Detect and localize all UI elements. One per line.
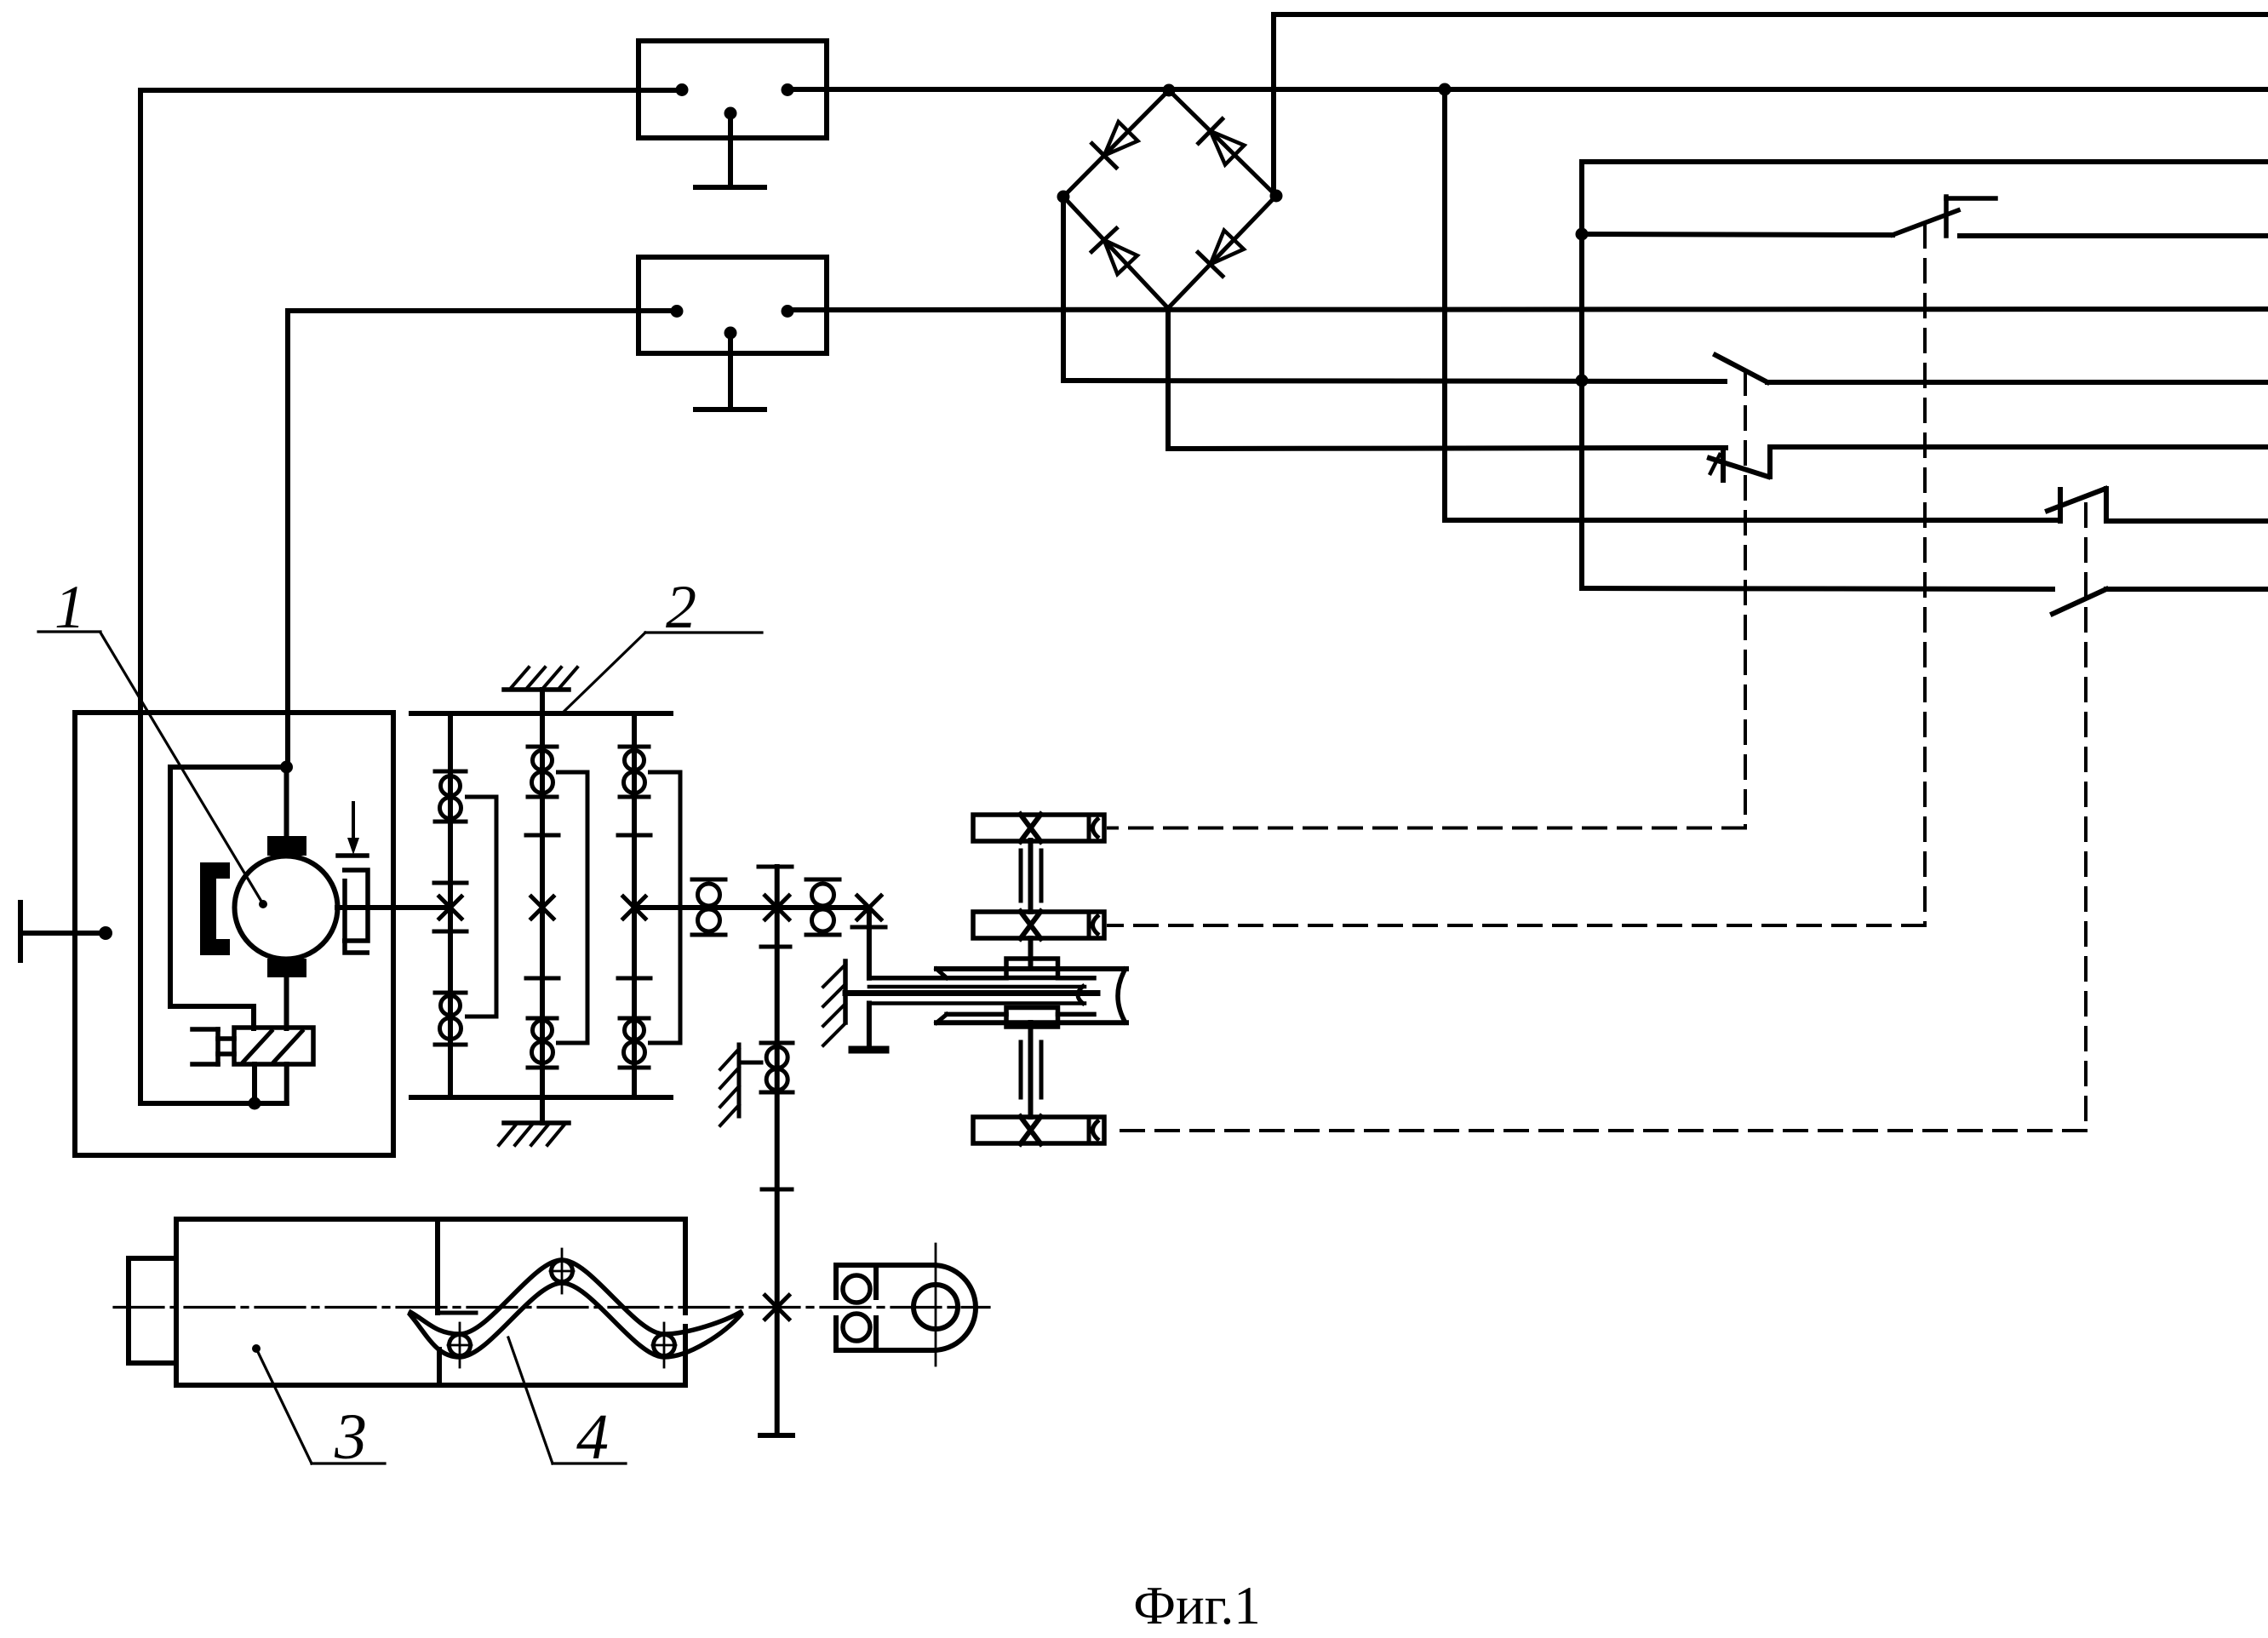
nut divider upper <box>873 1265 879 1297</box>
column 2 upper bearing <box>528 745 557 749</box>
shaft bearing A <box>692 878 725 882</box>
wire y526 right part after contact SQ3 <box>1770 444 2268 450</box>
nut divider lower <box>873 1318 879 1350</box>
column 3 carrier bracket <box>648 772 680 1043</box>
resistor left bracket bottom arm <box>192 1062 218 1067</box>
label 3 underline <box>312 1462 385 1464</box>
column 3 gear tick upper <box>618 833 650 838</box>
column 3 upper bearing <box>620 745 649 749</box>
axle tube bottom line <box>869 1001 1085 1005</box>
brake bar <box>338 853 367 858</box>
contact SQ4 left stub <box>2058 490 2063 521</box>
axle tube top line <box>869 985 1085 989</box>
diode VD3 bottom-left edge (arrow to left corner) <box>1104 240 1137 274</box>
carrier link vertical x1021 lower <box>867 1004 872 1048</box>
wire bottom return to riser 1 <box>140 1101 287 1106</box>
label 1 leader end dot <box>259 900 267 908</box>
bevel gear cross at x913 <box>765 896 789 919</box>
node dot on vertical B at y447 <box>1576 375 1589 387</box>
axis dash-dot centerline <box>114 1306 989 1309</box>
column 3 lower bearing <box>620 1017 649 1021</box>
axle wing bottom upper edge left <box>947 1012 1006 1017</box>
label 4 leader line <box>508 1337 553 1463</box>
wire y526 from bridge bottom leg to contact SQ3 <box>1169 448 1726 449</box>
upper block bottom edge left stub <box>439 1311 476 1315</box>
node dot on vertical B at y275 <box>1576 228 1589 241</box>
wheel 3 right cap arc <box>1093 1120 1100 1141</box>
relay K2 ground stem <box>728 333 733 409</box>
axle shaft break inner arc <box>1078 985 1085 1005</box>
shaft bearing B <box>806 878 839 882</box>
label 1 leader line <box>100 633 263 904</box>
column 2 gear tick lower <box>526 976 558 981</box>
wire y691 from vertical B corner to contact SQ5 <box>1582 588 2053 589</box>
bridge left corner node dot <box>1057 191 1070 203</box>
axle wheel1-wheel2 coupling bars <box>1019 850 1023 901</box>
relay K1 right contact dot <box>782 83 794 96</box>
resistor bracket tongue lower <box>218 1051 234 1057</box>
vertical output shaft x913 <box>775 867 780 1307</box>
carrier link ground bar <box>852 1046 885 1054</box>
gearbox top ground stem <box>540 690 545 713</box>
wave band 4 lower line <box>409 1283 742 1357</box>
nut ball upper <box>843 1275 870 1303</box>
relay K1 center terminal dot <box>724 107 737 120</box>
wheel 2 right cap bar <box>1087 914 1091 936</box>
wire y447 from bridge left corner leg to contact SQ2 <box>1063 381 1725 381</box>
contact SQ4 blade <box>2047 489 2105 511</box>
column 1 carrier bracket <box>465 797 496 1017</box>
node dot wire2 to motor top <box>280 761 293 774</box>
wire resistor bottom stub 2 <box>284 1064 289 1103</box>
wheel 1 cross <box>1021 815 1041 842</box>
axle top bearing block <box>1006 959 1058 978</box>
axle wheel1-wheel2 center <box>1028 840 1034 912</box>
resistor left bracket vertical <box>215 1029 220 1064</box>
contact SQ1 blade (top right, with hook) <box>1893 210 1958 235</box>
dashed link horizontal to wheel 2 <box>1108 924 1925 927</box>
gearbox bottom ground stem <box>540 1097 545 1123</box>
resistor hatch stroke 2 <box>274 1031 302 1062</box>
screw shaft lower part <box>775 1307 780 1435</box>
axle differential-wheel3 center <box>1028 1022 1034 1117</box>
axle wing bottom upper edge right <box>1058 1012 1095 1017</box>
cylinder 3 outer box bottom <box>176 1383 685 1388</box>
wheel 2 right cap arc <box>1093 915 1100 936</box>
cylinder 3 left edge <box>174 1219 179 1385</box>
node dot bottom wire <box>249 1097 261 1110</box>
planet column 2 shaft <box>540 713 545 1097</box>
wave band 4 upper line <box>409 1260 742 1334</box>
cylinder divider upper <box>435 1219 440 1313</box>
diode VD2 top-right edge (arrow to top corner) <box>1211 131 1245 164</box>
contact SQ3 blade <box>1710 458 1768 477</box>
wheel 1 right cap bar <box>1087 817 1091 839</box>
gearbox 2 bottom rail <box>411 1095 671 1100</box>
gearbox top ground bar <box>504 687 569 692</box>
contact SQ4 right step <box>2104 489 2109 521</box>
axle shaft break outer arc <box>1118 967 1126 1024</box>
relay K2 ground bar <box>696 407 765 412</box>
wire y611 from vertical A corner to contact SQ4 <box>1445 518 2060 523</box>
column 2 sun gear cross <box>531 896 553 919</box>
axle differential-wheel3 coupling bars <box>1019 1042 1023 1097</box>
column 2 lower bearing <box>528 1017 557 1021</box>
wire y447 right part after contact SQ2 <box>1767 380 2268 385</box>
contact SQ1 right fixed wire <box>1960 233 2268 238</box>
cylinder divider lower <box>437 1349 442 1385</box>
column 2 gear tick upper <box>526 833 558 838</box>
column 1 lower bearing <box>435 991 466 995</box>
axle wheel2-differential <box>1028 938 1034 965</box>
wheel 1 right cap arc <box>1093 818 1100 839</box>
wheel 3 right cap bar <box>1087 1120 1091 1141</box>
resistor hatch stroke 1 <box>243 1031 272 1062</box>
input terminal T-bar <box>18 902 23 960</box>
carrier link vertical x1021 upper <box>867 908 872 978</box>
planet column 1 shaft <box>448 713 453 1097</box>
column 1 gear tick upper <box>434 881 467 885</box>
wheel 3 body <box>973 1117 1104 1143</box>
wire y691 right part after contact SQ5 <box>2106 587 2268 592</box>
motor shaft to gearbox <box>337 905 450 910</box>
motor bottom brush <box>267 959 306 977</box>
label 1 underline <box>38 630 100 633</box>
svg-text:3: 3 <box>334 1401 367 1473</box>
diode VD4 bottom-right edge (arrow to bottom corner) <box>1211 230 1244 264</box>
wave roller 1 <box>450 1335 471 1356</box>
carrier link tick <box>852 925 885 930</box>
planet column 3 shaft <box>632 713 637 1097</box>
bridge right corner node dot <box>1270 190 1283 203</box>
contact SQ1 hook vertical <box>1944 197 1949 236</box>
wave roller 2 (crest) <box>552 1261 573 1282</box>
dashed link horizontal to wheel 3 <box>1108 1129 2086 1132</box>
brake release arrow <box>352 803 355 846</box>
nut housing bottom edge <box>836 1348 933 1353</box>
brake bracket right <box>342 870 368 941</box>
column 1 upper bearing <box>435 770 466 774</box>
motor armature circle M <box>235 856 338 959</box>
svg-text:1: 1 <box>54 573 85 641</box>
node junction dot on y105 at x1697 <box>1439 83 1452 96</box>
wave roller 3 <box>654 1335 675 1356</box>
bearing wall arm <box>739 1061 761 1065</box>
wire y190 from corner to right edge <box>1582 159 2268 164</box>
bearing wall support x913 <box>737 1045 742 1116</box>
axle wing bottom-left slant <box>936 1014 947 1022</box>
wheel 3 cross <box>1021 1117 1041 1144</box>
gearbox bottom ground bar <box>504 1120 569 1125</box>
contact SQ5 blade <box>2053 589 2106 614</box>
axle wing top-left slant <box>936 969 947 978</box>
wire loop vertical x200 <box>168 767 173 1006</box>
wire loop stub down to resistor <box>251 1006 256 1028</box>
wire left riser 2 x338 <box>285 311 290 767</box>
motor stator bracket <box>200 862 230 955</box>
resistor R (hatched box) <box>234 1028 313 1064</box>
wire from left riser to relay K1 <box>140 88 682 93</box>
wire vertical from top bus to bridge right corner <box>1271 14 1276 196</box>
contact SQ3 left stub <box>1721 448 1726 480</box>
wire resistor bottom stub 1 <box>252 1064 257 1103</box>
axle wing bottom edge <box>936 1020 1126 1025</box>
axle bottom bearing block <box>1006 1008 1058 1028</box>
relay K2 left contact dot <box>671 305 684 318</box>
cylinder 3 right edge lower <box>683 1326 688 1385</box>
gearbox bottom ground hatches <box>499 1125 516 1145</box>
label 2 leader line <box>562 633 645 713</box>
bridge top corner node dot <box>1163 84 1176 97</box>
column 3 sun gear cross <box>623 896 645 919</box>
wire left riser 1 x165 <box>138 90 143 1103</box>
wire y363 bus from relay K2 to right edge <box>787 309 2268 310</box>
wire loop bottom horizontal <box>170 1004 254 1009</box>
wire y275 contact SQ1 feed <box>1582 234 1893 235</box>
carrier gear cross at x1021 <box>857 896 881 919</box>
main shaft line <box>634 905 869 910</box>
label 3 leader dot <box>252 1344 261 1353</box>
relay K2 center terminal dot <box>724 327 737 340</box>
axle wing top lower edge left <box>869 976 1006 981</box>
input terminal end dot <box>99 926 112 940</box>
axle support wall <box>843 961 848 1022</box>
motor unit 1 outer box <box>75 713 393 1155</box>
contact SQ3 tick <box>1710 455 1720 473</box>
wheel 2 cross <box>1021 912 1041 939</box>
wire bus y105 from relay K1 to right edge <box>787 87 2268 92</box>
shaft x913 bearing <box>761 1041 793 1045</box>
shaft x913 top tick <box>759 865 792 869</box>
wire from bridge left corner down to y447 <box>1061 197 1066 381</box>
screw shaft bottom bar <box>760 1433 793 1438</box>
relay K2 box <box>639 257 827 353</box>
label 4 underline <box>553 1462 626 1464</box>
axle wing top edge <box>936 966 1126 971</box>
nut D-arc <box>933 1265 976 1350</box>
gearbox top ground hatches <box>512 667 529 687</box>
wire bottom brush to resistor <box>284 977 289 1028</box>
column 2 carrier bracket <box>556 772 587 1043</box>
nut ball lower <box>843 1314 870 1341</box>
wire from left riser 2 to relay K2 <box>288 308 677 313</box>
relay K1 ground stem <box>728 113 733 187</box>
contact SQ2 blade <box>1715 355 1767 382</box>
column 3 gear tick lower <box>618 976 650 981</box>
dashed link from SQ4/SQ5 down to wheel 3 <box>2084 504 2088 1131</box>
svg-text:2: 2 <box>666 573 696 641</box>
label 2 underline <box>645 631 762 633</box>
resistor left bracket top arm <box>192 1027 218 1032</box>
wheel 2 body <box>973 912 1104 938</box>
label 3 leader line <box>256 1349 312 1463</box>
wheel 1 body <box>973 815 1104 841</box>
nut housing left edge upper <box>833 1265 839 1297</box>
cylinder 3 right edge upper <box>683 1219 688 1313</box>
relay K1 left contact dot <box>676 83 689 96</box>
cylinder 3 outer box top <box>176 1217 685 1222</box>
input terminal wire <box>20 931 106 936</box>
brake bracket left <box>345 879 369 953</box>
relay K1 ground bar <box>696 185 765 190</box>
column 1 sun gear cross <box>439 896 461 919</box>
dashed link horizontal to wheel 1 <box>1108 827 1745 830</box>
nut eye vertical crosshair <box>935 1244 937 1366</box>
axle center shaft line <box>845 990 1097 996</box>
wire loop left: node to x200 <box>170 765 287 770</box>
nut housing top edge <box>836 1263 933 1268</box>
wire vertical B x1858 from y190 corner down to y691 <box>1579 162 1584 588</box>
axle wing top lower edge right <box>1058 976 1095 981</box>
nut eye circle <box>913 1285 958 1329</box>
relay K2 right contact dot <box>782 305 794 318</box>
resistor bracket tongue upper <box>218 1036 234 1041</box>
dashed link from SQ2/SQ3 down to wheel 1 <box>1744 372 1747 828</box>
dashed link from SQ1 down to wheel 2 <box>1923 225 1927 925</box>
relay K1 box <box>639 41 827 138</box>
screw shaft tick above <box>762 1188 792 1192</box>
contact SQ3 right step <box>1767 447 1773 477</box>
column 1 gear tick lower <box>434 930 467 934</box>
wire from bridge bottom corner down to y526 <box>1165 308 1171 449</box>
wire from node down to top brush <box>284 767 289 837</box>
nut housing left edge lower <box>833 1318 839 1350</box>
contact SQ1 hook horizontal <box>1946 196 1996 201</box>
gearbox 2 top rail <box>411 711 671 716</box>
diode VD1 top-left edge (arrow to left corner) <box>1104 122 1138 156</box>
wire y611 right part after contact SQ4 <box>2106 518 2268 524</box>
wire top bus y17 <box>1274 12 2268 17</box>
svg-text:Фиг.1: Фиг.1 <box>1133 1576 1260 1635</box>
motor top brush <box>267 836 306 856</box>
screw shaft bevel cross <box>765 1296 789 1320</box>
diode bridge VD outline <box>1063 90 1276 308</box>
wire vertical A x1697 down to line y611 <box>1442 89 1447 520</box>
shaft x913 tick below gear <box>761 945 790 949</box>
cylinder 3 left flange <box>129 1258 176 1363</box>
svg-text:4: 4 <box>576 1401 609 1473</box>
